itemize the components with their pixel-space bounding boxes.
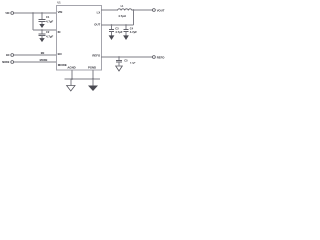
svg-text:OUT: OUT: [94, 23, 100, 27]
C3 value label: [115, 26, 122, 34]
wire PGND pin: [92, 70, 94, 79]
ground (AGND, open): [67, 79, 75, 91]
node output junction: [133, 9, 135, 11]
svg-text:0.1µF: 0.1µF: [130, 63, 136, 65]
svg-text:C2: C2: [46, 30, 50, 34]
wire LX to inductor: [101, 9, 118, 11]
capacitor C2: [39, 29, 46, 38]
svg-text:EN: EN: [41, 51, 45, 55]
svg-text:MODE: MODE: [58, 63, 67, 67]
wire REFO: [101, 56, 152, 58]
wire OUT pin rail: [101, 24, 134, 26]
wire EN to pin EN: [14, 54, 56, 56]
capacitor C3: [109, 24, 114, 35]
C2 value label: [46, 30, 53, 39]
svg-text:VOUT: VOUT: [157, 8, 165, 12]
node VIN terminal: [5, 12, 13, 15]
inductor L1: [118, 9, 132, 11]
svg-text:EN: EN: [58, 52, 62, 56]
wire AGND pin: [71, 70, 73, 79]
ground (C3, filled): [109, 35, 115, 40]
svg-text:REFO: REFO: [157, 55, 165, 59]
svg-text:LX: LX: [97, 10, 101, 14]
node MODE terminal: [2, 61, 13, 64]
ground (PGND, filled): [88, 79, 98, 91]
svg-text:C1: C1: [46, 15, 50, 19]
node VOUT terminal: [153, 8, 165, 12]
svg-text:4.7µF: 4.7µF: [115, 30, 122, 34]
C1 value label: [46, 15, 53, 24]
wire VIN to pin VIN: [14, 12, 56, 14]
wire MODE to pin MODE: [14, 61, 56, 63]
svg-text:4.7µF: 4.7µF: [46, 20, 53, 24]
IC U1 box: [57, 6, 102, 71]
node AGND junction: [71, 78, 73, 80]
wire VIN tee down to AVIN: [32, 12, 56, 30]
node REFO terminal: [153, 55, 166, 59]
svg-text:MODE: MODE: [40, 58, 48, 62]
capacitor C5: [116, 56, 122, 65]
node EN terminal: [6, 54, 14, 57]
wire ground rail: [65, 78, 101, 80]
svg-text:U1: U1: [58, 1, 62, 4]
capacitor C4: [123, 24, 128, 35]
svg-text:VIN: VIN: [58, 10, 63, 14]
svg-text:EN: EN: [6, 54, 10, 57]
svg-text:VIN: VIN: [5, 12, 9, 15]
svg-text:IN: IN: [58, 30, 61, 34]
svg-text:REFO: REFO: [92, 54, 101, 58]
ground (C5, open): [116, 66, 123, 71]
ground (C1, filled): [39, 24, 44, 28]
ground (C4, filled): [123, 35, 129, 40]
C4 value label: [130, 26, 137, 34]
svg-text:4.7µF: 4.7µF: [130, 30, 137, 34]
svg-text:L1: L1: [121, 5, 124, 8]
svg-text:4.7µH: 4.7µH: [118, 14, 126, 18]
svg-text:4.7µF: 4.7µF: [46, 35, 53, 39]
svg-text:PGND: PGND: [88, 66, 96, 70]
capacitor C1: [39, 12, 46, 24]
svg-text:AGND: AGND: [67, 66, 75, 70]
svg-text:MODE: MODE: [2, 61, 10, 64]
ground (C2, filled): [39, 38, 44, 42]
node PGND junction: [92, 78, 94, 80]
svg-text:C5: C5: [124, 59, 128, 63]
wire inductor to VOUT: [132, 9, 153, 11]
wire output down: [133, 10, 135, 25]
